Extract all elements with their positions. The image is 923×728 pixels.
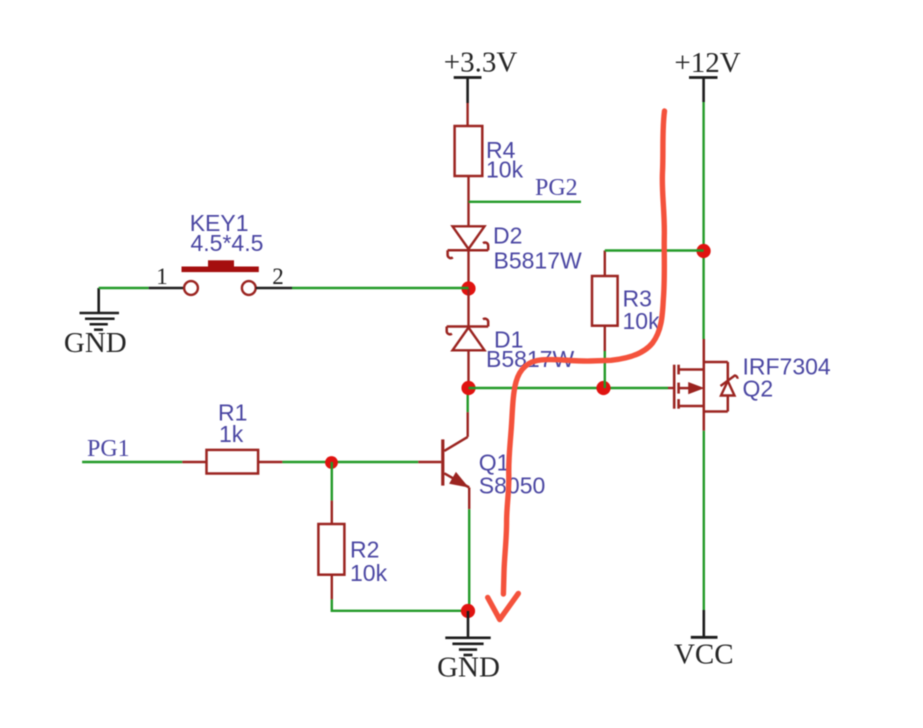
svg-text:1: 1 [156,264,168,289]
svg-text:10k: 10k [486,157,524,183]
node D : emitter/R2/GND junction [461,604,475,618]
node A : KEY1/D2/D1 junction [461,281,475,295]
svg-text:10k: 10k [623,308,661,334]
wire Q1 collector to node B [467,388,469,412]
svg-text:2: 2 [272,264,284,289]
wire R2 to ground node [332,599,468,610]
wire GND to KEY1 pin1 [99,287,149,289]
power VCC [674,610,734,671]
ground GND bottom [437,611,500,684]
wire node C to R2 [331,462,333,501]
wire Q1 emitter to ground node [468,509,470,611]
resistor R2 10k [318,501,387,600]
svg-text:GND: GND [437,652,500,684]
diode D1 B5817W [447,289,575,389]
wire R1 to Q1 base [282,461,418,463]
svg-text:PG1: PG1 [87,436,130,462]
svg-text:10k: 10k [350,560,388,586]
resistor R3 10k [592,251,660,352]
node E : +12V/R3 junction [697,244,711,258]
svg-text:VCC: VCC [674,639,734,671]
wire +3.3V to R4 [466,103,468,126]
net label PG2 [469,175,582,202]
svg-text:R2: R2 [350,537,379,563]
svg-text:D2: D2 [493,223,522,249]
wire R3 top to node E [605,249,704,251]
svg-text:1k: 1k [219,421,244,447]
svg-text:PG2: PG2 [535,175,578,201]
resistor R4 [455,126,524,226]
svg-text:4.5*4.5: 4.5*4.5 [191,230,264,256]
wire KEY1 pin2 to node A [292,287,469,289]
svg-text:Q2: Q2 [743,376,774,402]
node F : R3/gate junction [596,381,610,395]
wire Q2 source to VCC [703,431,705,610]
node C : R1/R2/base junction [325,456,338,469]
annotation freehand red arrow [488,111,665,620]
net label PG1 [82,436,182,462]
diode D2 B5817W [448,223,582,289]
power +3.3V [444,47,518,104]
power +12V [674,47,740,102]
wire gate net [469,387,669,389]
svg-text:S8050: S8050 [479,473,546,499]
svg-text:B5817W: B5817W [494,248,583,274]
mosfet Q2 IRF7304 [668,339,831,431]
ground GND left [64,288,127,359]
pushbutton KEY1 4.5*4.5 [149,210,292,295]
wire R3 bottom to node F [604,351,606,388]
transistor Q1 S8050 [418,412,545,509]
resistor R1 1k [182,400,282,474]
svg-text:+12V: +12V [674,47,740,79]
wire +12V rail [702,102,704,339]
node B : D1/R3/gate/collector junction [461,381,475,395]
svg-text:GND: GND [64,327,127,359]
svg-text:+3.3V: +3.3V [444,47,518,79]
